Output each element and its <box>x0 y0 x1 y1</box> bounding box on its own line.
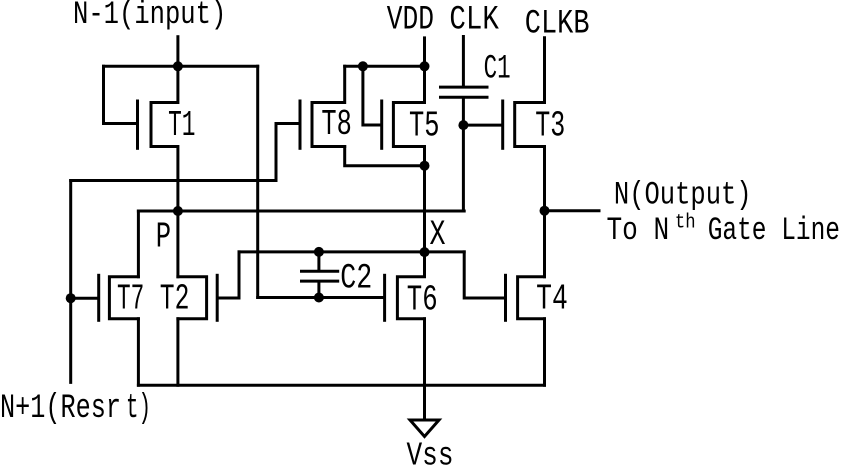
wire long gate line y181 <box>71 124 276 181</box>
svg-text:C1: C1 <box>484 51 511 89</box>
wire T2 source <box>176 319 179 386</box>
wire T5 gate riser <box>363 66 380 125</box>
transistor T6 gate bar <box>383 275 386 320</box>
wire input rail to C2 bottom line <box>256 66 259 297</box>
node dot T5 gate vdd <box>358 61 368 71</box>
wire C1 bottom to P riser <box>462 99 465 211</box>
svg-text:T6: T6 <box>407 280 438 321</box>
svg-text:X: X <box>430 215 446 255</box>
wire X to T4 gate <box>464 252 504 298</box>
node dot X <box>420 247 430 257</box>
wire input top rail <box>104 65 258 68</box>
wire T4 source <box>543 319 546 386</box>
wire P line <box>138 210 464 213</box>
wire reset riser <box>69 181 72 383</box>
svg-text:T8: T8 <box>321 104 351 145</box>
transistor T4 channel <box>518 277 545 319</box>
svg-text:T3: T3 <box>535 105 565 146</box>
node dot C2 bottom <box>314 293 324 303</box>
node dot C1 bottom T3 gate <box>458 120 468 130</box>
wire N-1 input drop <box>176 37 179 67</box>
svg-text:CLKB: CLKB <box>525 6 590 44</box>
capacitor C1 bottom plate <box>441 96 488 99</box>
node dot input <box>173 61 183 71</box>
transistor T8 gate bar <box>299 101 302 148</box>
wire T1 source T2 drain column <box>176 211 179 277</box>
svg-text:th: th <box>675 212 696 235</box>
svg-text:C2: C2 <box>340 258 372 298</box>
transistor T3 channel <box>515 103 545 211</box>
wire VDD rail <box>345 65 425 68</box>
wire T6 source to Vss <box>423 319 426 419</box>
svg-text:N-1(input): N-1(input) <box>73 0 226 33</box>
svg-text:t): t) <box>126 390 151 428</box>
node dot T8 T5 source <box>420 161 430 171</box>
transistor T7 channel <box>109 277 138 319</box>
node dot P <box>173 206 183 216</box>
transistor T5 channel <box>393 66 424 252</box>
svg-text:T5: T5 <box>409 105 440 146</box>
svg-text:To N: To N <box>607 212 670 249</box>
transistor T1 gate bar <box>136 101 139 148</box>
transistor T7 gate bar <box>97 275 100 320</box>
transistor T1 channel <box>151 66 178 211</box>
wire T7 gate <box>71 297 98 300</box>
wire output stub <box>545 209 600 212</box>
wire X line <box>239 250 464 253</box>
node dot reset T7 gate <box>66 293 76 303</box>
transistor T4 gate bar <box>504 275 507 320</box>
wire CLK drop <box>462 37 465 86</box>
svg-text:T1: T1 <box>168 105 195 146</box>
wire CLKB drop <box>543 38 546 103</box>
wire T8 gate <box>276 122 299 125</box>
transistor T2 gate bar <box>216 275 219 320</box>
transistor T6 channel <box>397 252 424 319</box>
wire X to T2 gate <box>219 252 239 298</box>
ground Vss arrow <box>410 420 439 437</box>
wire P to T7 drain <box>137 211 140 277</box>
capacitor C2 top stub <box>317 252 320 270</box>
transistor T2 channel <box>178 277 207 319</box>
svg-text:VDD: VDD <box>387 2 434 40</box>
wire Vss bus <box>138 384 544 387</box>
svg-text:N+1(Resr: N+1(Resr <box>0 390 121 428</box>
wire output to T4 drain <box>543 211 546 277</box>
wire C2 bottom T6 gate line <box>258 296 384 299</box>
wire T1 gate loop <box>104 66 137 123</box>
wire VDD drop <box>423 38 426 66</box>
capacitor C2 bottom stub <box>317 283 320 298</box>
capacitor C2 bottom plate <box>302 280 338 283</box>
transistor T5 gate bar <box>380 101 383 148</box>
wire T3 gate <box>463 124 501 127</box>
svg-text:CLK: CLK <box>449 1 499 39</box>
node dot C2 top <box>314 247 324 257</box>
wire T8 source elbow <box>345 147 425 166</box>
svg-text:T4: T4 <box>536 278 568 319</box>
transistor T8 channel <box>312 66 345 146</box>
node dot VDD rail <box>420 61 430 71</box>
transistor T3 gate bar <box>501 101 504 148</box>
svg-text:Gate Line: Gate Line <box>708 212 840 249</box>
capacitor C1 top plate <box>441 86 488 89</box>
svg-text:T2: T2 <box>160 278 190 319</box>
svg-text:Vss: Vss <box>407 438 454 467</box>
svg-text:N(Output): N(Output) <box>614 177 752 214</box>
svg-text:T7: T7 <box>117 278 144 319</box>
wire T7 source <box>137 319 140 386</box>
node dot output <box>540 206 550 216</box>
svg-text:P: P <box>156 217 171 258</box>
capacitor C2 top plate <box>302 270 338 273</box>
